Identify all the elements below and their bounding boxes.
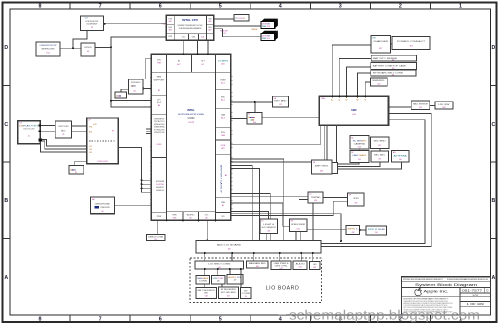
wire T1 to R2C: [338, 162, 402, 169]
chip left stub 1: [142, 179, 152, 181]
DIP switch SW1: [69, 166, 84, 175]
svg-text:NC SERIES: NC SERIES: [353, 141, 367, 143]
wire chipset to B1: [231, 212, 269, 220]
svg-text:LENWBCTDMUBSGBCOOCHC: LENWBCTDMUBSGBCOOCHC: [178, 25, 203, 27]
svg-text:U23: U23: [320, 171, 323, 173]
wire SMC to bar1: [339, 59, 371, 97]
wire chipset to U12: [231, 101, 273, 103]
wire J40 to J41 a: [204, 253, 206, 261]
svg-text:J30: J30: [399, 159, 402, 161]
svg-text:MEM: MEM: [157, 77, 162, 79]
svg-text:J21: J21: [392, 75, 395, 77]
svg-text:U49: U49: [227, 295, 230, 297]
svg-text:MUX: MUX: [61, 130, 66, 132]
LIO box S5: [218, 287, 238, 299]
svg-text:CAMERA: CAMERA: [354, 143, 366, 146]
svg-text:J50: J50: [245, 296, 248, 298]
svg-text:TRKPAD: TRKPAD: [311, 196, 322, 199]
wire U3 to chipset via vertical: [95, 46, 111, 48]
svg-text:MIC MIC: MIC MIC: [374, 155, 386, 157]
svg-text:DCMNG: DCMNG: [218, 61, 229, 63]
mic conn J29: [371, 151, 388, 162]
svg-text:PNL: PNL: [89, 127, 93, 129]
wire SMC bottom to T1 pinbox: [336, 125, 338, 162]
svg-text:U48: U48: [205, 296, 208, 298]
title block: [402, 277, 491, 315]
LIO box W2: [247, 261, 269, 268]
svg-text:TOBUDHWWUBUUNBHBTE: TOBUDHWWUBUUNBHBTE: [179, 28, 203, 30]
wire SMC bottom to T1 top a: [324, 125, 326, 160]
svg-text:BATT INDICATOR: BATT INDICATOR: [198, 289, 216, 292]
buffer box U3: [81, 43, 95, 56]
crystal X2: [115, 92, 127, 98]
svg-text:B1: B1: [338, 100, 340, 102]
wire U15 to U16: [430, 104, 435, 106]
LIO box S1: [196, 275, 210, 284]
svg-text:D: D: [492, 45, 496, 51]
svg-text:INTEL CPU: INTEL CPU: [182, 18, 198, 22]
wire X2 to U4: [121, 89, 129, 92]
wire chipset to LIO drop x252.2: [231, 166, 252, 241]
svg-text:XHARUFIKA: XHARUFIKA: [154, 126, 165, 129]
wire J1 to mux pin1: [41, 125, 55, 127]
svg-text:■■■■■: ■■■■■: [249, 116, 256, 119]
wire chipset to T2: [231, 195, 308, 197]
svg-text:WL: WL: [313, 162, 316, 164]
svg-text:3: 3: [339, 3, 342, 9]
svg-text:U44: U44: [299, 267, 302, 269]
Apple logo: [415, 288, 449, 295]
wire CPU to chipset FSB 1: [182, 40, 184, 54]
wire U4 up to chip top-left: [145, 59, 151, 79]
svg-text:DUUWGMDT: DUUWGMDT: [87, 24, 99, 26]
wire T1 to R2B: [338, 162, 381, 167]
sense box U22: [371, 78, 388, 86]
svg-text:J12: J12: [279, 104, 282, 106]
svg-text:NEWIMVMRDD: NEWIMVMRDD: [372, 80, 385, 82]
svg-text:U3: U3: [87, 51, 89, 53]
svg-text:U25: U25: [354, 203, 357, 205]
svg-text:TS: TS: [364, 100, 366, 102]
svg-text:KOETDUKTXF: KOETDUKTXF: [86, 21, 100, 23]
svg-text:D: D: [486, 288, 488, 292]
SMC U14: [319, 96, 388, 125]
wire chipset to U13: [231, 118, 247, 120]
svg-text:A4-2: A4-2: [221, 117, 225, 120]
wire chipset LPC down to LIO box: [206, 220, 208, 240]
svg-text:LID SW: LID SW: [438, 104, 450, 106]
junction chipset bottom dividers: [166, 219, 168, 221]
svg-text:MONTEVINA MCP89 & NMEH: MONTEVINA MCP89 & NMEH: [178, 113, 204, 116]
wire J40 to W5: [312, 253, 314, 262]
dashed boundary LIO BOARD: [190, 258, 321, 302]
svg-text:POWER CONNECT: POWER CONNECT: [397, 41, 426, 43]
svg-text:A3: A3: [158, 104, 160, 107]
camera conn J28: [350, 150, 369, 162]
svg-text:MEM A: MEM A: [252, 28, 259, 31]
wire U26 to J28: [358, 149, 360, 151]
svg-text:BKL: BKL: [89, 132, 92, 134]
svg-text:CHG CTRL: CHG CTRL: [275, 265, 288, 267]
svg-text:U22: U22: [377, 83, 380, 85]
svg-text:U17: U17: [379, 48, 382, 50]
svg-text:ANTENNA: ANTENNA: [394, 154, 408, 157]
svg-text:U32: U32: [297, 228, 300, 230]
svg-text:VBDAUET: VBDAUET: [156, 186, 165, 189]
wire J1 bundle to LVDS panel 3: [41, 144, 87, 153]
svg-text:HALL SENSOR: HALL SENSOR: [413, 103, 429, 106]
chip left stub 4: [142, 191, 152, 193]
fan box U32: [290, 219, 307, 232]
wire panel right to chip via stair: [118, 148, 141, 193]
battery bar J21: [371, 70, 416, 77]
wire J1 bundle to LVDS panel 2: [42, 141, 86, 149]
wire SMC right down to LIO bus A: [321, 113, 431, 246]
svg-text:7: 7: [99, 3, 102, 9]
svg-text:SPK R SUB: SPK R SUB: [368, 229, 386, 231]
svg-text:PCIE: PCIE: [221, 145, 226, 147]
LIO connector W1: [195, 261, 243, 269]
svg-text:KEYBOARD BKLT CONN: KEYBOARD BKLT CONN: [373, 72, 404, 75]
svg-text:NNDRWNB: NNDRWNB: [156, 181, 165, 183]
svg-text:U43: U43: [280, 268, 283, 270]
wire CPU to chipset FSB 2: [197, 40, 199, 54]
wire CPU to U11: [214, 29, 262, 37]
svg-text:S1: S1: [75, 172, 77, 174]
wire J41 to S2: [217, 269, 219, 275]
svg-text:A4-1: A4-1: [221, 99, 225, 102]
airport bridge U23: [312, 160, 338, 174]
svg-text:J29: J29: [378, 158, 381, 160]
wire chipset to J35: [157, 220, 159, 234]
wire B2 right to P1: [307, 229, 346, 231]
svg-text:RAM U11: RAM U11: [262, 37, 270, 40]
svg-text:CPU: CPU: [157, 60, 162, 62]
svg-text:CAM: CAM: [221, 114, 226, 117]
svg-text:4: 4: [279, 316, 282, 322]
trackpad U24: [308, 192, 323, 203]
IO board interface box ADD LIO BOARD: [196, 241, 321, 254]
svg-text:A07: A07: [208, 29, 211, 32]
svg-text:AUDIO: AUDIO: [296, 262, 306, 265]
svg-text:MKHFHCUKSR: MKHFHCUKSR: [42, 48, 55, 50]
camera box U26: [350, 136, 369, 149]
chipset U1800 INTEL MONTEVINA MCP89: [150, 54, 233, 221]
svg-text:8: 8: [39, 3, 42, 9]
svg-text:5: 5: [219, 316, 222, 322]
LIO box S4: [196, 287, 216, 298]
svg-text:PMFVDRB: PMFVDRB: [101, 207, 111, 209]
watermark: [279, 314, 287, 316]
svg-text:SOFLERO: SOFLERO: [131, 82, 141, 84]
svg-text:CHARGER: CHARGER: [373, 40, 389, 43]
wire J1 bundle to LVDS panel 1: [42, 139, 86, 146]
svg-text:U13: U13: [253, 122, 256, 124]
wire S1 to S4: [204, 284, 206, 287]
svg-text:U16: U16: [442, 107, 445, 109]
svg-text:SLWHVGHNHGSRMAAIRIGVMPMMCHDHRG: SLWHVGHNHGSRMAAIRIGVMPMMCHDHRGLGR: [447, 278, 488, 281]
wire chipset bottom-right to LIO: [231, 214, 341, 241]
svg-text:U26: U26: [358, 146, 361, 148]
svg-text:LIO BRD CONN: LIO BRD CONN: [208, 264, 231, 266]
LIO box S2: [211, 275, 225, 284]
svg-text:ADD LIO BOARD: ADD LIO BOARD: [217, 244, 242, 247]
svg-text:CBKWUXPKNXMA: CBKWUXPKNXMA: [95, 202, 111, 205]
wire J41 to S1: [204, 269, 206, 275]
wire SMC to charger: [332, 45, 371, 96]
svg-text:BATTERY CONN TOP CASE: BATTERY CONN TOP CASE: [373, 64, 407, 67]
wire U13 to SMC: [262, 117, 319, 119]
svg-text:ARPT BRG: ARPT BRG: [315, 164, 329, 167]
svg-text:System Block Diagram: System Block Diagram: [415, 283, 477, 287]
svg-text:6: 6: [159, 316, 162, 322]
svg-text:LCD: LCD: [93, 124, 97, 126]
IO bridge U25: [348, 193, 365, 206]
svg-text:LV1: LV1: [89, 146, 92, 148]
svg-text:LVDS: LVDS: [157, 144, 163, 146]
mic box U27: [370, 137, 388, 149]
svg-text:A: A: [4, 275, 8, 281]
wire J40 to W3: [279, 253, 281, 261]
battery bar J19: [371, 55, 416, 61]
wire SW1 up to panel bottom pin: [75, 161, 87, 165]
svg-text:A5: A5: [225, 174, 227, 177]
svg-text:LV2: LV2: [89, 149, 92, 151]
svg-text:MXNHECFEH: MXNHECFEH: [154, 124, 165, 126]
memory module U10 DDR3: [261, 19, 278, 29]
svg-text:U4: U4: [133, 91, 135, 93]
wire B2 bottoms to LIO: [295, 232, 297, 242]
power connector J18: [392, 36, 430, 49]
clock generator Y1: [80, 16, 103, 31]
svg-text:PNTIEOTIO: PNTIEOTIO: [154, 121, 165, 123]
svg-text:U24: U24: [314, 200, 317, 202]
svg-text:1: 1: [459, 3, 462, 9]
chip left stubs small: [146, 128, 151, 130]
svg-text:RUPCCIRX: RUPCCIRX: [59, 126, 70, 128]
svg-text:AIRPORT CARD IF: AIRPORT CARD IF: [220, 165, 223, 195]
svg-text:J35: J35: [154, 239, 157, 241]
svg-text:J34: J34: [375, 232, 378, 234]
memory module U11 DDR3: [261, 31, 278, 41]
svg-text:GCGPFDL: GCGPFDL: [156, 184, 164, 186]
svg-text:J18: J18: [409, 46, 412, 48]
svg-text:LIGHT &: LIGHT &: [263, 224, 275, 226]
svg-text:J33: J33: [352, 232, 355, 234]
svg-text:U2: U2: [91, 27, 93, 29]
wire P1 to P2: [360, 229, 366, 231]
wire X1 to U3: [60, 47, 81, 49]
wire J41 to S3: [229, 269, 231, 275]
wire branch to chipset upper pin: [111, 100, 151, 102]
svg-text:RPRRKCEDLIRFSAGSMETASKWCISMFMH: RPRRKCEDLIRFSAGSMETASKWCISMFMHTT: [403, 278, 444, 281]
svg-text:B04: B04: [169, 30, 172, 32]
LIO box W4: [293, 261, 307, 270]
svg-text:SDHC: SDHC: [187, 215, 196, 217]
svg-text:LPKVCD: LPKVCD: [84, 47, 93, 49]
wire T2 bottom to LIO: [312, 203, 314, 241]
svg-text:schemalaptpp.blogspot.com: schemalaptpp.blogspot.com: [289, 307, 480, 322]
wire S2 to S5: [221, 284, 223, 287]
svg-text:LIO79: LIO79: [188, 122, 195, 124]
svg-text:J46: J46: [217, 280, 220, 282]
svg-text:U31: U31: [267, 230, 270, 232]
wire CPU left pin down-left to chipset: [111, 37, 166, 107]
connector J1 DISPLAY PORT: [18, 121, 43, 144]
wire chipset to B2: [231, 203, 290, 226]
chip left stub 2: [142, 183, 152, 185]
svg-text:J47: J47: [234, 279, 237, 281]
svg-text:PWR: PWR: [157, 216, 162, 218]
LIO box S6: [241, 287, 251, 298]
wire SMC bottom to chipset: [231, 125, 320, 144]
svg-text:INTEL: INTEL: [187, 108, 195, 112]
wire junction drop to U13: [254, 102, 256, 112]
sleep sensor U15: [411, 101, 430, 110]
svg-text:B: B: [492, 198, 496, 204]
svg-text:U27: U27: [378, 145, 381, 147]
svg-text:U6: U6: [101, 211, 103, 213]
svg-text:KEY BRD: KEY BRD: [275, 101, 288, 103]
svg-text:Apple Inc.: Apple Inc.: [424, 289, 449, 293]
wire SMC to sense box: [365, 82, 370, 96]
svg-text:J40: J40: [227, 248, 230, 250]
svg-text:■■■■: ■■■■: [116, 94, 122, 97]
svg-text:LVDS CON: LVDS CON: [97, 161, 108, 163]
svg-text:■■■■: ■■■■: [131, 85, 137, 88]
LIO box S3: [227, 275, 243, 285]
wire SMC to bar2: [347, 67, 371, 96]
svg-text:B12: B12: [169, 21, 172, 23]
svg-text:ETH: ETH: [221, 132, 225, 134]
svg-text:SPI: SPI: [222, 216, 225, 218]
svg-text:MIC BRD: MIC BRD: [374, 140, 387, 142]
svg-text:2: 2: [399, 3, 402, 9]
svg-text:PWR: PWR: [172, 215, 177, 217]
svg-text:B2: B2: [178, 61, 180, 63]
battery conn box J35: [146, 234, 165, 241]
wire T1 to R2A: [338, 162, 359, 164]
audio codec U6: [91, 197, 115, 214]
battery charger U17: [371, 36, 391, 53]
svg-text:B5: B5: [189, 217, 191, 219]
wire J41 to S6: [240, 269, 242, 287]
wire mux to panel a: [71, 125, 86, 127]
svg-text:J28: J28: [358, 159, 361, 161]
svg-text:RAM U10: RAM U10: [262, 25, 270, 28]
svg-text:B2: B2: [346, 100, 348, 102]
svg-text:BXCTULLMV: BXCTULLMV: [24, 128, 36, 130]
svg-text:LIO BOARD: LIO BOARD: [266, 286, 300, 292]
battery bar J20: [371, 62, 417, 70]
svg-text:051-7577: 051-7577: [462, 288, 483, 292]
wire chipset to T1: [231, 161, 312, 163]
svg-text:B2: B2: [158, 90, 160, 92]
LIO box W5: [309, 262, 320, 270]
svg-text:CUBVGRXTOLPUP: CUBVGRXTOLPUP: [40, 45, 58, 47]
legal text: [404, 298, 454, 314]
svg-text:D: D: [4, 45, 8, 51]
wire mux to panel b: [71, 131, 86, 133]
svg-text:U15: U15: [419, 107, 422, 109]
svg-text:U45: U45: [313, 267, 316, 269]
svg-text:SLP LED BRD: SLP LED BRD: [221, 292, 237, 294]
svg-text:R11: R11: [46, 53, 49, 55]
svg-text:5: 5: [219, 3, 222, 9]
LVDS panel connector J2: [87, 118, 119, 164]
svg-text:SMC: SMC: [321, 98, 326, 100]
wire CPU to U10: [214, 25, 262, 27]
sensor U16: [435, 102, 453, 109]
chipset edge pin ticks: [150, 76, 152, 78]
svg-text:7: 7: [99, 316, 102, 322]
svg-text:KB: KB: [356, 100, 358, 102]
speaker L J33: [346, 225, 360, 234]
thermal sensor U4: [129, 79, 144, 94]
LIO box W3: [271, 261, 291, 270]
svg-text:A7: A7: [222, 204, 224, 207]
svg-text:J19: J19: [392, 59, 395, 61]
svg-text:U5: U5: [62, 134, 64, 136]
wire B1 bottom to LIO: [266, 233, 268, 241]
svg-text:B: B: [4, 198, 8, 204]
svg-text:MAGSAFE BRD: MAGSAFE BRD: [249, 262, 267, 265]
svg-text:C: C: [492, 122, 496, 128]
svg-text:4: 4: [279, 3, 282, 9]
svg-text:SPK L: SPK L: [347, 228, 358, 230]
wire SMC to bar3: [357, 73, 370, 96]
wire J40 to W4: [300, 253, 302, 261]
svg-text:SPKR: SPKR: [353, 198, 359, 200]
svg-text:U1800: U1800: [187, 117, 195, 120]
wire CPU to J3: [214, 18, 234, 20]
svg-text:CAM CABLE: CAM CABLE: [352, 154, 367, 157]
svg-text:HDMI: HDMI: [221, 80, 226, 82]
svg-text:TP CON X2: TP CON X2: [235, 18, 245, 20]
wire clock to CPU: [104, 23, 167, 25]
wire chipset to LIO drop x283.7: [231, 159, 284, 241]
wire U4 right to chipset: [143, 88, 151, 90]
wire U6 to chip: [115, 205, 152, 207]
wire J40 to W2: [253, 253, 255, 261]
svg-text:SPEED SNSR: SPEED SNSR: [291, 224, 306, 226]
svg-text:DISPLAY PORT: DISPLAY PORT: [19, 124, 39, 127]
svg-text:S.P.R: S.P.R: [472, 295, 478, 297]
svg-text:VWXBPXTNN: VWXBPXTNN: [154, 132, 165, 134]
svg-text:BAT NTC SENSE: BAT NTC SENSE: [373, 57, 398, 60]
svg-text:P2: P2: [112, 130, 114, 132]
wire T2 to M: [323, 197, 348, 199]
svg-text:LV3: LV3: [89, 152, 92, 154]
wire charger to power connector: [391, 43, 393, 45]
svg-text:KBC: KBC: [221, 97, 226, 99]
svg-text:EOTMVULES: EOTMVULES: [154, 129, 165, 131]
svg-text:U42: U42: [256, 266, 259, 268]
svg-text:DMVACGV: DMVACGV: [156, 189, 165, 192]
svg-text:A: A: [492, 275, 496, 281]
wire stub into T2: [299, 198, 308, 200]
wire J40 to J41 b: [231, 253, 233, 261]
chip left stub 3: [142, 187, 152, 189]
svg-text:GKEHNNRCF: GKEHNNRCF: [154, 119, 165, 121]
svg-text:C: C: [4, 122, 8, 128]
svg-text:A31: A31: [221, 63, 224, 66]
keyboard box U12: [272, 96, 288, 107]
svg-text:SMC: SMC: [351, 108, 357, 112]
wire SMC right down to LIO bus B: [321, 120, 425, 244]
connector J3: [234, 15, 249, 21]
svg-text:1 OF 109: 1 OF 109: [467, 303, 485, 306]
